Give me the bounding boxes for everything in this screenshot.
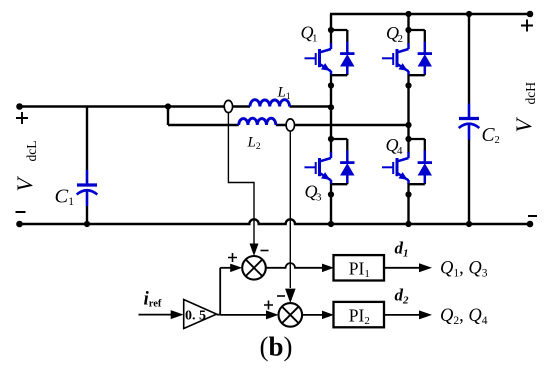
arrow into PI2 xyxy=(322,311,334,320)
terminal dot low side + xyxy=(16,103,23,110)
wire gain to summer1 xyxy=(220,267,231,269)
junction dot top rail / C2 xyxy=(466,11,472,17)
summer circle 1 (current error) xyxy=(242,256,266,280)
wire L2 branch xyxy=(168,107,409,126)
gain block 0.5 (triangle) xyxy=(184,300,217,329)
block PI2 xyxy=(334,302,385,327)
svg-text:Q1, Q3: Q1, Q3 xyxy=(440,259,488,280)
junction dot L1 / leg Q1-Q3 midpoint xyxy=(328,104,334,110)
wire PI1 output d1 xyxy=(384,267,420,269)
junction dot bottom rail / leg Q2-Q4 xyxy=(405,221,411,227)
current sense point ellipse on L2 xyxy=(286,119,294,131)
minus sign low side xyxy=(16,211,26,213)
wire iref input xyxy=(139,314,173,316)
arrow into PI1 xyxy=(322,264,334,273)
arrow into summer1 top xyxy=(250,244,259,257)
arrow into summer2 top xyxy=(285,289,296,304)
minus sign at summer2 xyxy=(277,295,285,297)
transistor Q3 (IGBT with antiparallel diode) xyxy=(331,138,347,140)
junction dot L2 branch point xyxy=(165,103,171,109)
junction dot bottom rail / leg Q1-Q3 xyxy=(328,221,334,227)
transistor Q4 (IGBT with antiparallel diode) xyxy=(409,138,425,140)
transistor Q1 (IGBT with antiparallel diode) xyxy=(331,29,347,31)
wire gain output riser xyxy=(217,268,221,315)
wire PI2 output d2 xyxy=(384,314,420,316)
arrow into gain block xyxy=(171,310,184,319)
junction dot bottom rail / C2 xyxy=(466,221,472,227)
svg-text:C2: C2 xyxy=(482,125,500,146)
arrow PI2 output xyxy=(419,310,432,319)
label VdcL xyxy=(12,141,39,192)
transistor Q2 (IGBT with antiparallel diode) xyxy=(409,29,425,31)
summer circle 2 (current error) xyxy=(279,303,303,327)
svg-text:VdcL: VdcL xyxy=(12,141,39,192)
label VdcH xyxy=(511,82,538,133)
wire current feedback iL1 xyxy=(228,113,254,244)
svg-text:Q2: Q2 xyxy=(386,23,403,45)
svg-text:Q2, Q4: Q2, Q4 xyxy=(440,306,488,327)
wire summer1 to PI1 xyxy=(266,263,323,268)
svg-text:0. 5: 0. 5 xyxy=(185,308,206,323)
svg-text:Q3: Q3 xyxy=(305,182,323,204)
svg-text:C1: C1 xyxy=(55,186,75,209)
capacitor C1 xyxy=(86,107,88,171)
plus sign at summer2 xyxy=(264,301,273,310)
wire leg Q1-Q3 segments xyxy=(330,14,332,224)
terminal dot high side + xyxy=(527,11,534,18)
svg-text:d2: d2 xyxy=(395,286,410,307)
plus sign high side xyxy=(521,20,533,32)
arrow into summer2 left xyxy=(266,310,279,319)
junction dot L2 / leg Q2-Q4 midpoint xyxy=(405,122,411,128)
current sense point ellipse on L1 xyxy=(224,100,232,112)
inductor L1 xyxy=(250,100,290,107)
svg-text:iref: iref xyxy=(144,289,162,310)
svg-text:Q1: Q1 xyxy=(301,22,318,44)
terminal dot low side - xyxy=(16,221,23,228)
plus sign low side xyxy=(16,112,28,124)
wire current feedback iL2 xyxy=(289,131,291,288)
arrow into summer1 left xyxy=(230,264,242,273)
block PI1 xyxy=(334,255,385,280)
inductor L2 xyxy=(239,118,276,125)
wire bottom rail (common negative bus) xyxy=(20,219,531,224)
svg-text:L2: L2 xyxy=(247,135,261,153)
junction dot bottom rail / C1 xyxy=(84,221,90,227)
arrow PI1 output xyxy=(419,263,432,272)
wire top rail (high-side positive bus) xyxy=(330,13,530,15)
svg-text:L1: L1 xyxy=(277,85,291,103)
junction dot top rail / leg Q2-Q4 xyxy=(405,11,411,17)
minus sign at summer1 xyxy=(261,250,269,252)
capacitor C2 xyxy=(468,14,470,104)
svg-text:Q4: Q4 xyxy=(386,135,404,157)
wire summer2 to PI2 xyxy=(302,314,323,316)
svg-text:(b): (b) xyxy=(260,332,293,362)
wire low-side positive (L1 branch) xyxy=(20,105,332,107)
wire leg Q2-Q4 segments xyxy=(407,14,409,224)
svg-text:VdcH: VdcH xyxy=(511,82,538,133)
minus sign high side xyxy=(528,215,537,217)
wire gain to summer2 xyxy=(220,314,266,316)
terminal dot high side - xyxy=(527,221,534,228)
plus sign at summer1 xyxy=(228,253,237,262)
svg-text:d1: d1 xyxy=(395,238,409,259)
